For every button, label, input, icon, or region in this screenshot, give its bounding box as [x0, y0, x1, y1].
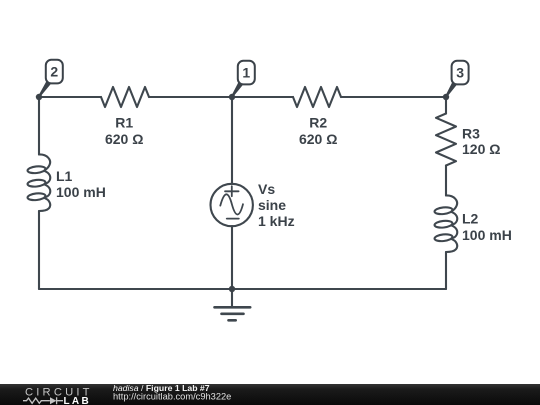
wire middle vertical lower (Vs to ground node) [231, 226, 233, 289]
svg-text:1 kHz: 1 kHz [258, 213, 295, 229]
wire left vertical upper [38, 97, 40, 155]
footer bar [0, 384, 540, 405]
svg-text:Vs: Vs [258, 181, 275, 197]
svg-text:120 Ω: 120 Ω [462, 141, 500, 157]
voltage source plus sign [225, 186, 239, 196]
footer logo diode [50, 397, 56, 404]
wire top left (node2 to R1) [39, 96, 101, 98]
svg-text:3: 3 [456, 64, 464, 80]
node 1 label [232, 61, 255, 97]
wire middle vertical upper (node1 to Vs) [231, 97, 233, 184]
voltage source Vs circle [211, 184, 253, 226]
svg-text:LAB: LAB [64, 396, 90, 405]
wire right vertical lower (L2 to bottom) [445, 252, 447, 289]
svg-text:1: 1 [242, 64, 250, 80]
ground stub [231, 289, 233, 307]
junction node 2 dot [36, 94, 42, 100]
node 3 label [446, 61, 469, 97]
junction node 1 dot [229, 94, 235, 100]
footer logo resistor zigzag [23, 398, 50, 403]
inductor L2 [434, 195, 457, 252]
resistor R1 [101, 87, 149, 107]
wire top right (R2 to node3) [341, 96, 446, 98]
ground bars [215, 307, 251, 320]
svg-text:100 mH: 100 mH [462, 227, 512, 243]
svg-text:620 Ω: 620 Ω [105, 131, 143, 147]
voltage source minus sign [227, 218, 239, 220]
wire top middle (R1 to R2 through node1) [149, 96, 293, 98]
svg-text:L1: L1 [56, 168, 73, 184]
node 2 label [39, 60, 63, 97]
svg-text:L2: L2 [462, 210, 479, 226]
wire bottom [39, 288, 446, 290]
svg-text:100 mH: 100 mH [56, 184, 106, 200]
wire right vertical upper (node3 to R3) [445, 97, 447, 114]
svg-text:R1: R1 [115, 114, 133, 130]
resistor R3 [436, 114, 456, 166]
voltage source sine wave [220, 194, 243, 214]
junction ground dot [229, 286, 235, 292]
junction node 3 dot [443, 94, 449, 100]
svg-text:2: 2 [50, 63, 58, 79]
wire right vertical middle (R3 to L2) [445, 166, 447, 196]
resistor R2 [293, 87, 341, 107]
inductor L1 [27, 154, 50, 211]
svg-text:620 Ω: 620 Ω [299, 131, 337, 147]
wire left vertical lower [38, 211, 40, 289]
svg-text:R2: R2 [309, 114, 327, 130]
svg-text:sine: sine [258, 197, 286, 213]
svg-text:R3: R3 [462, 126, 480, 142]
svg-text:http://circuitlab.com/c9h322e: http://circuitlab.com/c9h322e [113, 392, 231, 402]
